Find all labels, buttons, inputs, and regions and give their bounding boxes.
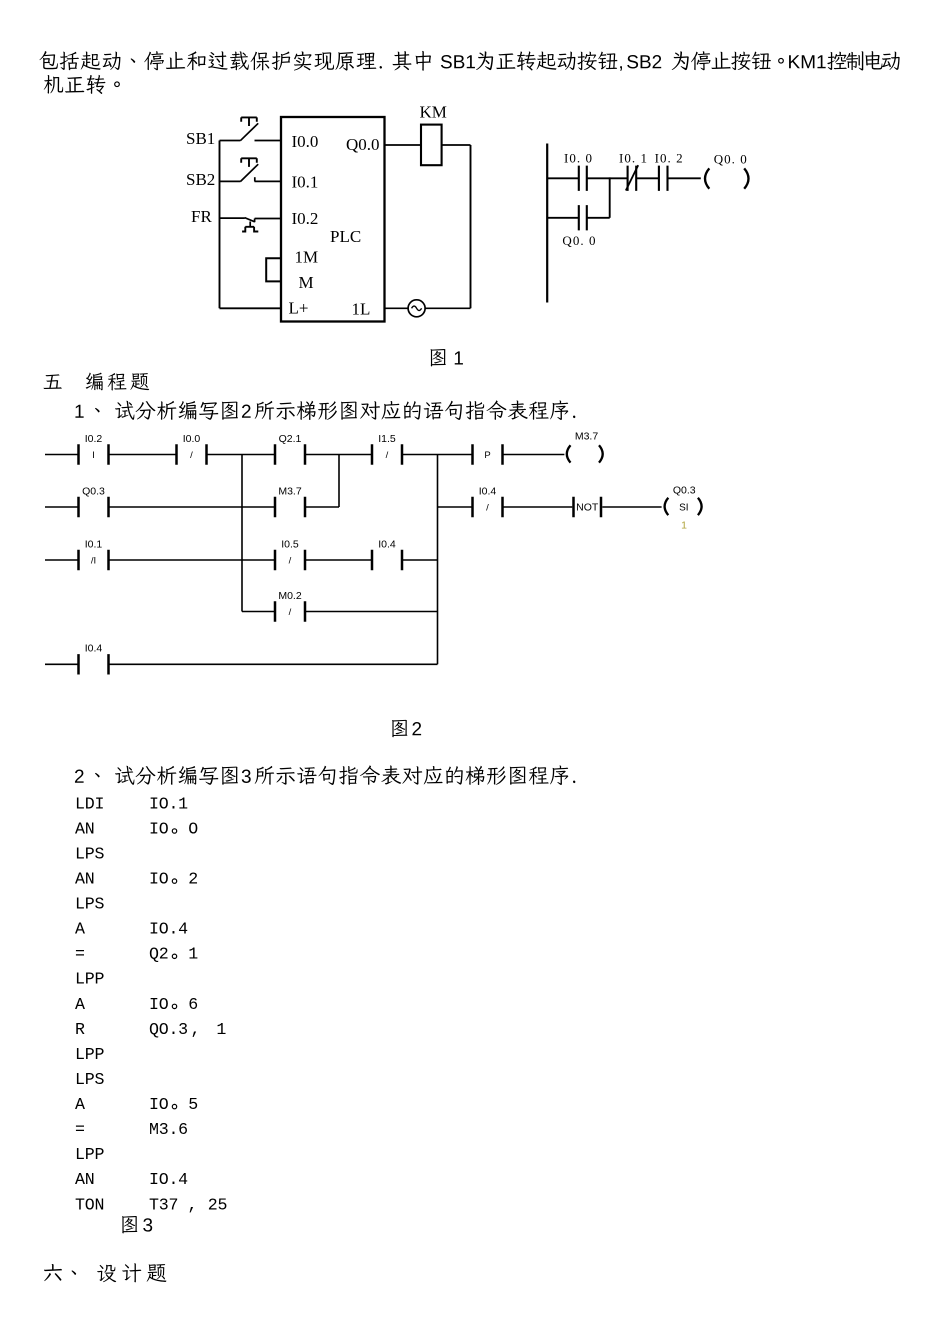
contact Q0.3 (NO): [79, 485, 109, 517]
contact I0.5 (NC): [275, 538, 305, 570]
contact I0.4 (NO): [79, 643, 109, 675]
svg-text:1: 1: [681, 520, 687, 532]
svg-text:M0.2: M0.2: [278, 590, 302, 602]
coil Q0.3 SI (set immediate): [665, 485, 702, 532]
svg-text:M3.6: M3.6: [149, 1120, 188, 1139]
svg-text:=: =: [75, 945, 85, 964]
svg-text:A: A: [75, 1095, 85, 1114]
coil M3.7: [567, 431, 603, 463]
wire rung4 stub from V1: [242, 611, 275, 613]
heading 五 编程题: [44, 373, 150, 391]
output coil Q0.0: [705, 168, 749, 188]
svg-text:=: =: [75, 1120, 85, 1139]
svg-text:Q0.0: Q0.0: [346, 135, 380, 154]
wire rung1 left stub: [45, 454, 79, 456]
wire: L+ supply to PLC: [220, 307, 282, 309]
svg-text:I0.4: I0.4: [479, 485, 497, 497]
wire rung 1: [547, 177, 701, 179]
svg-text:TON: TON: [75, 1195, 104, 1214]
wire: 1L to AC source: [385, 307, 471, 309]
svg-text:P: P: [484, 450, 490, 461]
wire: KM coil to right rail: [442, 144, 471, 146]
question 1 text: [75, 400, 575, 420]
contact Q0.0 (NO seal-in): [579, 205, 587, 230]
caption 图 2: [392, 720, 421, 737]
contact M0.2 (NC): [275, 590, 305, 622]
svg-text:SB2: SB2: [186, 170, 215, 189]
wire rung5 left stub: [45, 663, 79, 665]
heading 六、设计题: [44, 1263, 167, 1282]
svg-text:/: /: [190, 450, 193, 461]
svg-text:/: /: [386, 450, 389, 461]
svg-text:I0.1: I0.1: [85, 538, 103, 550]
pushbutton SB2 (NC stop button): [220, 158, 282, 181]
svg-text:NOT: NOT: [576, 502, 599, 514]
svg-text:AN: AN: [75, 870, 94, 889]
wire: right return rail: [470, 145, 472, 308]
svg-text:PLC: PLC: [330, 227, 361, 246]
svg-text:I0. 0: I0. 0: [564, 150, 593, 165]
junction rail V3: [437, 455, 439, 665]
svg-text:IO: IO: [149, 1095, 169, 1114]
svg-text:IO: IO: [149, 819, 169, 838]
svg-text:I0.5: I0.5: [281, 538, 299, 550]
svg-text:L+: L+: [289, 299, 309, 318]
contact I0.2 (NO): [659, 166, 668, 191]
svg-text:Q2: Q2: [149, 945, 168, 964]
svg-text:KM: KM: [420, 103, 447, 122]
svg-text:T37: T37: [149, 1195, 178, 1214]
svg-text:/: /: [289, 555, 292, 566]
junction rail V2: [338, 455, 340, 508]
svg-text:Q0. 0: Q0. 0: [714, 152, 748, 167]
svg-text:5: 5: [188, 1095, 198, 1114]
svg-text:Q2.1: Q2.1: [279, 433, 302, 445]
svg-text:I0.1: I0.1: [292, 172, 319, 191]
svg-text:LPP: LPP: [75, 1145, 104, 1164]
svg-text:2: 2: [188, 870, 198, 889]
contact Q2.1 (NO): [275, 433, 305, 465]
svg-text:,: ,: [191, 1020, 201, 1039]
wire: branch junction: [609, 177, 611, 217]
svg-text:6: 6: [188, 995, 198, 1014]
svg-text:I0.4: I0.4: [85, 643, 103, 655]
svg-text:IO: IO: [149, 995, 169, 1014]
thermal overload contact FR: [220, 218, 282, 232]
contact P (positive edge): [473, 444, 503, 464]
figure 1 ladder fragment: [547, 144, 748, 303]
svg-text:IO: IO: [149, 870, 169, 889]
contactor coil KM: [421, 125, 442, 166]
contact I0.2 (immediate NO): [79, 433, 109, 465]
svg-text:I0.4: I0.4: [378, 538, 396, 550]
svg-text:M3.7: M3.7: [575, 431, 599, 443]
svg-text:AN: AN: [75, 1170, 94, 1189]
contact M3.7 (NO): [275, 485, 305, 517]
svg-text:LPP: LPP: [75, 1045, 104, 1064]
junction rail V1: [241, 455, 243, 612]
svg-text:A: A: [75, 995, 85, 1014]
caption 图 3: [122, 1216, 152, 1233]
svg-text:I0. 1: I0. 1: [619, 150, 648, 165]
NOT box: [574, 497, 602, 517]
svg-text:IO.4: IO.4: [149, 920, 188, 939]
ladder left power rail: [546, 144, 548, 303]
AC power source G1: [408, 300, 425, 317]
svg-text:25: 25: [208, 1195, 227, 1214]
contact I0.1 (immediate NC): [79, 538, 109, 570]
svg-text:/: /: [486, 502, 489, 513]
wire rung2 left stub: [45, 506, 79, 508]
svg-text:LPS: LPS: [75, 895, 104, 914]
svg-text:SI: SI: [679, 503, 688, 514]
contact I0.4 (NC): [473, 485, 503, 517]
svg-text:O: O: [188, 819, 198, 838]
svg-text:I: I: [92, 450, 95, 461]
wire rung 2 (seal-in branch): [547, 217, 610, 219]
svg-text:A: A: [75, 920, 85, 939]
svg-text:I0.0: I0.0: [292, 132, 319, 151]
svg-text:LPP: LPP: [75, 970, 104, 989]
svg-text:AN: AN: [75, 819, 94, 838]
figure 1: PLC wiring diagram: [220, 117, 471, 322]
contact I0.0 (NC): [177, 433, 207, 465]
contact I0.1 (NC): [628, 166, 637, 191]
svg-text:M3.7: M3.7: [278, 485, 302, 497]
paragraph line 2: [44, 75, 120, 94]
svg-text:I0. 2: I0. 2: [655, 150, 684, 165]
svg-text:IO.4: IO.4: [149, 1170, 188, 1189]
wire: left input rail: [219, 141, 221, 309]
svg-text:I1.5: I1.5: [378, 433, 396, 445]
wire rung3 left stub: [45, 559, 79, 561]
svg-text:SB1: SB1: [186, 129, 215, 148]
svg-text:Q0. 0: Q0. 0: [562, 233, 596, 248]
svg-text:I0.2: I0.2: [292, 209, 319, 228]
svg-text:LPS: LPS: [75, 1070, 104, 1089]
svg-text:1: 1: [188, 945, 198, 964]
wire: Q0.0 output to KM coil: [385, 144, 421, 146]
svg-text:M: M: [299, 273, 314, 292]
contact I0.4 (NO): [372, 538, 402, 570]
wire rung2 right of V3: [438, 506, 473, 508]
svg-text:,: ,: [188, 1195, 198, 1214]
instruction list program (figure 3): [75, 794, 227, 1214]
pushbutton SB1 (NO start button): [220, 117, 282, 140]
svg-text:/: /: [289, 607, 292, 618]
question 2 text: [75, 765, 575, 785]
caption 图 1: [431, 349, 463, 366]
svg-text:LDI: LDI: [75, 794, 104, 813]
svg-text:FR: FR: [191, 207, 212, 226]
contact I1.5 (NC): [372, 433, 402, 465]
PLC block U1: [281, 117, 385, 322]
svg-text:1M: 1M: [295, 248, 319, 267]
svg-text:1: 1: [216, 1020, 226, 1039]
svg-text:1L: 1L: [352, 300, 371, 319]
paragraph line 1: [39, 51, 899, 71]
svg-text:Q0.3: Q0.3: [82, 485, 105, 497]
svg-text:QO.3: QO.3: [149, 1020, 188, 1039]
svg-text:I0.0: I0.0: [183, 433, 201, 445]
svg-text:/I: /I: [91, 555, 96, 566]
svg-text:I0.2: I0.2: [85, 433, 103, 445]
jumper wire 1M to M: [266, 258, 281, 281]
svg-text:LPS: LPS: [75, 844, 104, 863]
svg-text:Q0.3: Q0.3: [673, 485, 696, 497]
contact I0.0 (NO): [579, 166, 587, 191]
svg-text:IO.1: IO.1: [149, 794, 188, 813]
wire rung5 to merge rail: [109, 663, 438, 665]
svg-text:R: R: [75, 1020, 85, 1039]
